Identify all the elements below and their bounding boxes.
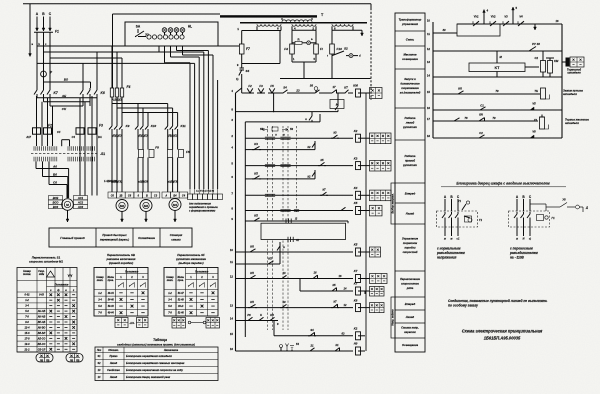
svg-text:CK: CK: [62, 107, 67, 111]
svg-text:F2: F2: [48, 124, 52, 128]
svg-text:19-0: 19-0: [25, 343, 31, 346]
svg-text:YY: YY: [67, 274, 73, 278]
svg-text:15: 15: [230, 332, 234, 336]
svg-text:13: 13: [282, 271, 286, 275]
svg-text:Блокировка ограничения скорост: Блокировка ограничения скорости на ходу: [126, 368, 184, 372]
svg-text:R: R: [297, 38, 299, 42]
svg-text:K5: K5: [268, 256, 272, 260]
svg-text:конт.: конт.: [97, 280, 104, 282]
svg-text:правой: правой: [405, 159, 415, 163]
svg-text:N: N: [523, 238, 525, 241]
svg-text:/2: /2: [294, 217, 298, 221]
svg-text:3-4: 3-4: [98, 298, 102, 301]
svg-text:F3: F3: [259, 84, 263, 88]
svg-text:Обознач.: Обознач.: [108, 349, 119, 352]
svg-text:скоростей: скоростей: [403, 250, 418, 254]
svg-text:1-2: 1-2: [98, 292, 102, 295]
svg-text:шпинделя: шпинделя: [567, 71, 581, 75]
svg-text:K8: K8: [354, 298, 358, 302]
svg-text:17-8: 17-8: [25, 337, 31, 340]
svg-text:1B: 1B: [119, 195, 122, 198]
svg-text:K3: K3: [254, 142, 258, 146]
svg-text:C2: C2: [479, 131, 483, 135]
svg-text:Назад: Назад: [110, 362, 118, 365]
svg-text:Номер: Номер: [96, 277, 104, 279]
svg-text:K7: K7: [54, 91, 58, 95]
svg-text:H0: H0: [354, 342, 358, 346]
svg-text:SA: SA: [136, 25, 141, 29]
svg-text:F3: F3: [99, 124, 103, 128]
svg-text:15-6: 15-6: [25, 332, 31, 335]
svg-text:ВБ-ВЛ: ВБ-ВЛ: [38, 333, 46, 335]
svg-text:разъединителем: разъединителем: [436, 251, 465, 255]
svg-text:Главный привод: Главный привод: [60, 236, 85, 240]
svg-text:17: 17: [427, 117, 431, 121]
svg-text:r: r: [327, 54, 328, 58]
svg-text:3-4: 3-4: [168, 298, 172, 301]
svg-text:Схема электрическая принципи: Схема электрическая принципиальная: [462, 329, 543, 334]
svg-text:K5: K5: [254, 171, 258, 175]
svg-text:18: 18: [427, 134, 431, 138]
svg-text:У8: У8: [562, 198, 566, 202]
svg-text:Жилы: Жилы: [106, 277, 114, 279]
svg-text:K7: K7: [354, 269, 358, 273]
svg-text:РУ 48: РУ 48: [532, 42, 540, 46]
svg-text:Блокировка ограждения шпинделя: Блокировка ограждения шпинделя: [126, 354, 172, 358]
svg-text:с переносным: с переносным: [510, 247, 533, 251]
svg-text:K7: K7: [354, 282, 358, 286]
svg-text:Д: Д: [585, 206, 588, 210]
svg-text:50-43: 50-43: [108, 305, 115, 308]
svg-text:1-2: 1-2: [25, 299, 29, 302]
svg-text:48-44: 48-44: [107, 292, 115, 295]
svg-text:F1: F1: [55, 30, 59, 34]
svg-text:K2: K2: [354, 129, 358, 133]
svg-text:1Б61БП.А95.00035: 1Б61БП.А95.00035: [484, 336, 521, 341]
svg-text:K5: K5: [250, 271, 254, 275]
svg-text:V4: V4: [519, 15, 523, 19]
svg-text:Запуск и: Запуск и: [404, 77, 416, 81]
svg-text:B: B: [146, 195, 148, 198]
svg-text:M: M: [66, 203, 69, 207]
svg-text:54-46: 54-46: [108, 298, 115, 301]
svg-text:A0: A0: [52, 165, 57, 169]
svg-text:42: 42: [295, 238, 299, 242]
svg-text:F2: F2: [248, 84, 252, 88]
svg-text:Назад: Назад: [406, 212, 415, 216]
svg-text:49-44: 49-44: [107, 312, 115, 315]
svg-text:U: U: [260, 313, 262, 317]
svg-text:1-2: 1-2: [168, 292, 172, 295]
svg-text:Напр. подачи: Напр. подачи: [392, 309, 395, 326]
svg-text:м: м: [451, 238, 453, 241]
svg-text:BC0: BC0: [53, 205, 59, 209]
svg-text:ЛВ: ЛВ: [39, 360, 44, 362]
svg-text:V8: V8: [532, 130, 536, 134]
svg-text:30: 30: [442, 28, 446, 32]
svg-text:5-6: 5-6: [168, 305, 172, 308]
svg-text:10: 10: [427, 19, 431, 23]
svg-text:пров.: пров.: [108, 280, 114, 282]
svg-text:7-8: 7-8: [168, 312, 172, 315]
svg-text:P6: P6: [247, 313, 251, 317]
svg-text:k7: k7: [333, 300, 337, 304]
svg-text:KT: KT: [495, 66, 501, 70]
svg-text:(выбора передач): (выбора передач): [178, 261, 203, 265]
svg-text:(правой коробки): (правой коробки): [109, 261, 133, 265]
svg-text:АБ-СО: АБ-СО: [37, 338, 46, 340]
svg-text:K9: K9: [126, 124, 130, 128]
svg-text:7-8: 7-8: [25, 316, 29, 319]
svg-text:шпинделя: шпинделя: [563, 92, 577, 96]
svg-text:KT: KT: [344, 86, 348, 90]
svg-text:AC1: AC1: [77, 196, 84, 200]
svg-text:Положение: Положение: [195, 271, 209, 273]
svg-text:F4: F4: [127, 85, 131, 89]
svg-text:Блокировка ограждения сменных: Блокировка ограждения сменных шестерен: [126, 361, 185, 365]
svg-text:21: 21: [309, 343, 314, 347]
svg-text:по особому заказу: по особому заказу: [448, 304, 478, 308]
svg-text:YV1: YV1: [473, 15, 479, 19]
svg-text:11: 11: [230, 260, 233, 264]
svg-text:об/м: об/м: [39, 273, 45, 276]
svg-text:1: 1: [237, 27, 239, 31]
svg-text:79: 79: [492, 116, 496, 120]
svg-text:Станция: Станция: [170, 233, 183, 237]
svg-text:S2: S2: [344, 47, 348, 51]
svg-text:21-2: 21-2: [24, 348, 31, 351]
svg-text:KM: KM: [554, 59, 559, 63]
svg-text:K5: K5: [250, 300, 254, 304]
svg-text:Y2: Y2: [534, 118, 538, 122]
svg-text:K4: K4: [354, 186, 358, 190]
svg-text:K6: K6: [250, 244, 254, 248]
svg-text:с формирователями: с формирователями: [189, 210, 216, 213]
svg-text:разъединителем: разъединителем: [509, 251, 538, 255]
svg-text:KM: KM: [353, 84, 358, 88]
svg-text:А-1 И З) (1 Л (2 И): А-1 И З) (1 Л (2 И): [195, 191, 214, 193]
svg-text:ю1(В)(С8): ю1(В)(С8): [111, 182, 122, 184]
svg-text:48+3: 48+3: [177, 305, 184, 308]
svg-text:Таблица: Таблица: [153, 338, 167, 342]
svg-text:S6: S6: [310, 84, 314, 88]
svg-text:Номер: Номер: [166, 277, 174, 279]
svg-text:F10: F10: [337, 47, 343, 51]
svg-text:полож.: полож.: [23, 274, 31, 276]
svg-text:левой: левой: [405, 121, 415, 125]
svg-text:10: 10: [282, 300, 286, 304]
svg-text:0-02: 0-02: [25, 294, 31, 297]
svg-text:Смазка напр.: Смазка напр.: [401, 326, 419, 330]
svg-text:Назначение: Назначение: [164, 349, 179, 352]
svg-text:C0: C0: [53, 181, 57, 185]
svg-text:ряда: ряда: [406, 286, 414, 290]
svg-text:эл.двигателей: эл.двигателей: [400, 91, 421, 95]
svg-text:ПВ: ПВ: [76, 360, 80, 362]
svg-text:7-8: 7-8: [98, 312, 102, 315]
svg-text:k5: k5: [320, 158, 324, 162]
svg-text:5-6: 5-6: [25, 310, 29, 313]
svg-text:рукоятки: рукоятки: [402, 163, 417, 167]
svg-text:BCO: BCO: [53, 200, 59, 204]
svg-text:k3: k3: [333, 131, 337, 135]
svg-text:Скор.: Скор.: [38, 271, 45, 273]
svg-text:K8: K8: [270, 313, 274, 317]
svg-text:15: 15: [427, 90, 431, 94]
svg-text:Освещение: Освещение: [402, 343, 419, 347]
svg-text:6: 6: [277, 27, 279, 31]
svg-text:K11: K11: [181, 124, 187, 128]
svg-text:ВП-АБ: ВП-АБ: [38, 322, 46, 324]
svg-text:K5: K5: [354, 243, 358, 247]
svg-text:F8: F8: [155, 146, 159, 150]
svg-text:14: 14: [230, 317, 234, 321]
svg-text:C4: C4: [72, 135, 76, 139]
svg-text:динамическое: динамическое: [400, 82, 420, 86]
svg-text:K6: K6: [458, 86, 462, 90]
svg-text:Положение: Положение: [125, 271, 139, 273]
svg-text:Работа: Работа: [404, 154, 415, 158]
svg-text:ю1(В)(С8): ю1(В)(С8): [138, 182, 149, 184]
svg-text:Соединения, показанные пунктир: Соединения, показанные пунктирной линией…: [448, 299, 547, 303]
svg-text:Жилы: Жилы: [176, 277, 184, 279]
svg-text:17: 17: [332, 85, 336, 89]
svg-text:Зажим пульта: Зажим пульта: [563, 89, 583, 93]
svg-text:Местное: Местное: [403, 53, 416, 57]
svg-text:K10: K10: [151, 124, 157, 128]
svg-text:V5: V5: [532, 102, 536, 106]
svg-text:YV2: YV2: [490, 15, 496, 19]
svg-text:пров.: пров.: [178, 280, 184, 282]
svg-text:M3: M3: [144, 204, 148, 208]
svg-text:AC0: AC0: [77, 205, 84, 209]
svg-text:1): 1): [236, 77, 239, 81]
svg-text:C4: C4: [57, 130, 61, 134]
svg-text:Блокировка дверец шкафа с: Блокировка дверец шкафа с вводным выключ…: [456, 182, 550, 186]
svg-text:Вперед: Вперед: [405, 192, 416, 196]
svg-text:HL: HL: [188, 25, 192, 29]
svg-text:коробки: коробки: [404, 246, 415, 250]
svg-text:СВ-СЛ: СВ-СЛ: [38, 349, 46, 351]
svg-text:Fl: Fl: [320, 47, 323, 51]
svg-text:AC2: AC2: [77, 200, 84, 204]
svg-text:Положение: Положение: [55, 283, 69, 286]
svg-text:АН-АВ: АН-АВ: [37, 317, 46, 319]
svg-text:Переключение: Переключение: [400, 277, 420, 281]
svg-text:Вперед: Вперед: [405, 302, 416, 306]
svg-text:M2: M2: [120, 204, 124, 208]
svg-text:B0: B0: [53, 173, 57, 177]
svg-text:k1: k1: [335, 343, 339, 347]
svg-text:тормозом: тормозом: [403, 242, 417, 245]
svg-text:Работа: Работа: [404, 116, 415, 120]
svg-text:на ~110В: на ~110В: [510, 256, 525, 260]
svg-text:ЛВ: ЛВ: [69, 360, 74, 362]
svg-text:АН-ВО: АН-ВО: [37, 327, 46, 329]
svg-text:ВБ-СО: ВБ-СО: [38, 344, 46, 346]
svg-text:12-4: 12-4: [25, 326, 31, 329]
svg-text:13: 13: [427, 60, 431, 64]
svg-text:10: 10: [230, 248, 234, 252]
svg-text:k5: k5: [332, 283, 336, 287]
svg-text:F5: F5: [270, 84, 274, 88]
svg-text:0-63: 0-63: [39, 295, 44, 297]
svg-text:торможение: торможение: [401, 87, 419, 90]
svg-text:КН: КН: [479, 113, 483, 117]
svg-text:DA: DA: [98, 135, 102, 139]
svg-text:напряжения: напряжения: [437, 256, 456, 260]
svg-text:Охлаждение: Охлаждение: [138, 236, 155, 240]
svg-text:с нормальным: с нормальным: [437, 247, 461, 251]
svg-text:K5: K5: [354, 201, 358, 205]
svg-text:S4: S4: [246, 69, 250, 73]
svg-text:M4: M4: [173, 203, 177, 207]
svg-text:13: 13: [230, 304, 234, 308]
svg-text:59: 59: [290, 127, 294, 131]
svg-text:A: A: [164, 195, 167, 198]
svg-text:K3: K3: [354, 156, 358, 160]
svg-text:51-46: 51-46: [178, 312, 185, 315]
svg-text:кареток: кареток: [404, 331, 416, 334]
svg-text:конт.: конт.: [167, 280, 174, 282]
svg-text:16: 16: [313, 271, 317, 275]
svg-text:Номер: Номер: [23, 271, 31, 273]
svg-text:свободных (запасных) контактов: свободных (запасных) контактов примен. (…: [117, 342, 195, 346]
svg-text:11: 11: [427, 32, 430, 36]
svg-text:k7: k7: [322, 188, 326, 192]
svg-text:51-49: 51-49: [178, 298, 185, 301]
svg-text:Трансформатор: Трансформатор: [399, 18, 422, 22]
svg-text:скорости шпинделя М1: скорости шпинделя М1: [29, 260, 63, 264]
svg-text:A17: A17: [25, 135, 31, 139]
svg-text:Назад: Назад: [110, 376, 118, 379]
svg-text:14: 14: [427, 74, 431, 78]
svg-text:54-47: 54-47: [178, 292, 185, 295]
svg-text:Назад: Назад: [406, 315, 415, 319]
svg-text:скоростного: скоростного: [401, 283, 419, 286]
svg-text:У1: У1: [458, 199, 462, 203]
svg-text:смазки: смазки: [171, 239, 181, 242]
svg-text:BCB: BCB: [53, 196, 59, 200]
svg-text:16: 16: [230, 347, 234, 351]
svg-text:-S1: -S1: [100, 152, 105, 156]
svg-text:78: 78: [464, 116, 468, 120]
svg-text:освещение: освещение: [402, 57, 418, 61]
svg-text:Выбор направл.: Выбор направл.: [392, 193, 395, 213]
svg-text:C1: C1: [480, 104, 484, 108]
svg-text:Прямо: Прямо: [109, 355, 118, 358]
svg-text:F7: F7: [246, 47, 250, 51]
svg-text:-АЗ-: -АЗ-: [129, 321, 135, 325]
svg-text:перемещений (карет.): перемещений (карет.): [100, 238, 129, 242]
svg-text:шпинделя: шпинделя: [565, 121, 579, 125]
svg-text:16: 16: [427, 106, 431, 110]
svg-text:12: 12: [230, 275, 234, 279]
svg-text:K5: K5: [254, 213, 258, 217]
svg-text:Сеть: Сеть: [406, 38, 415, 42]
svg-text:K6: K6: [101, 91, 105, 95]
svg-text:Блокировка дверц зажимной реек: Блокировка дверц зажимной реек: [126, 375, 171, 379]
svg-text:S4: S4: [310, 328, 314, 332]
svg-text:79: 79: [495, 89, 499, 93]
svg-text:управления: управления: [401, 23, 418, 26]
svg-text:Тормоз жесткого: Тормоз жесткого: [565, 118, 589, 122]
svg-text:АН-АБ: АН-АБ: [37, 311, 46, 313]
svg-text:с): с): [529, 238, 531, 241]
svg-text:ПВ: ПВ: [46, 360, 50, 362]
svg-text:9-0: 9-0: [25, 321, 29, 324]
svg-text:K2: K2: [354, 327, 358, 331]
svg-text:Привод быстрых: Привод быстрых: [102, 233, 127, 237]
svg-text:ж: ж: [515, 238, 518, 241]
svg-text:Fd: Fd: [284, 47, 288, 51]
svg-text:ТН: ТН: [534, 89, 538, 93]
svg-text:Управление: Управление: [402, 237, 419, 241]
svg-text:ю1(В)(С8): ю1(В)(С8): [167, 182, 178, 184]
svg-text:F5: F5: [186, 150, 190, 154]
svg-text:12: 12: [427, 47, 431, 51]
svg-text:рукоятки: рукоятки: [402, 125, 417, 129]
svg-text:C2: C2: [535, 56, 539, 60]
svg-text:23: 23: [295, 89, 300, 93]
svg-text:5-6: 5-6: [98, 305, 102, 308]
svg-text:Свойство: Свойство: [107, 369, 120, 372]
svg-text:3-4: 3-4: [25, 305, 29, 308]
svg-text:S4: S4: [283, 85, 287, 89]
svg-text:V3: V3: [504, 15, 508, 19]
